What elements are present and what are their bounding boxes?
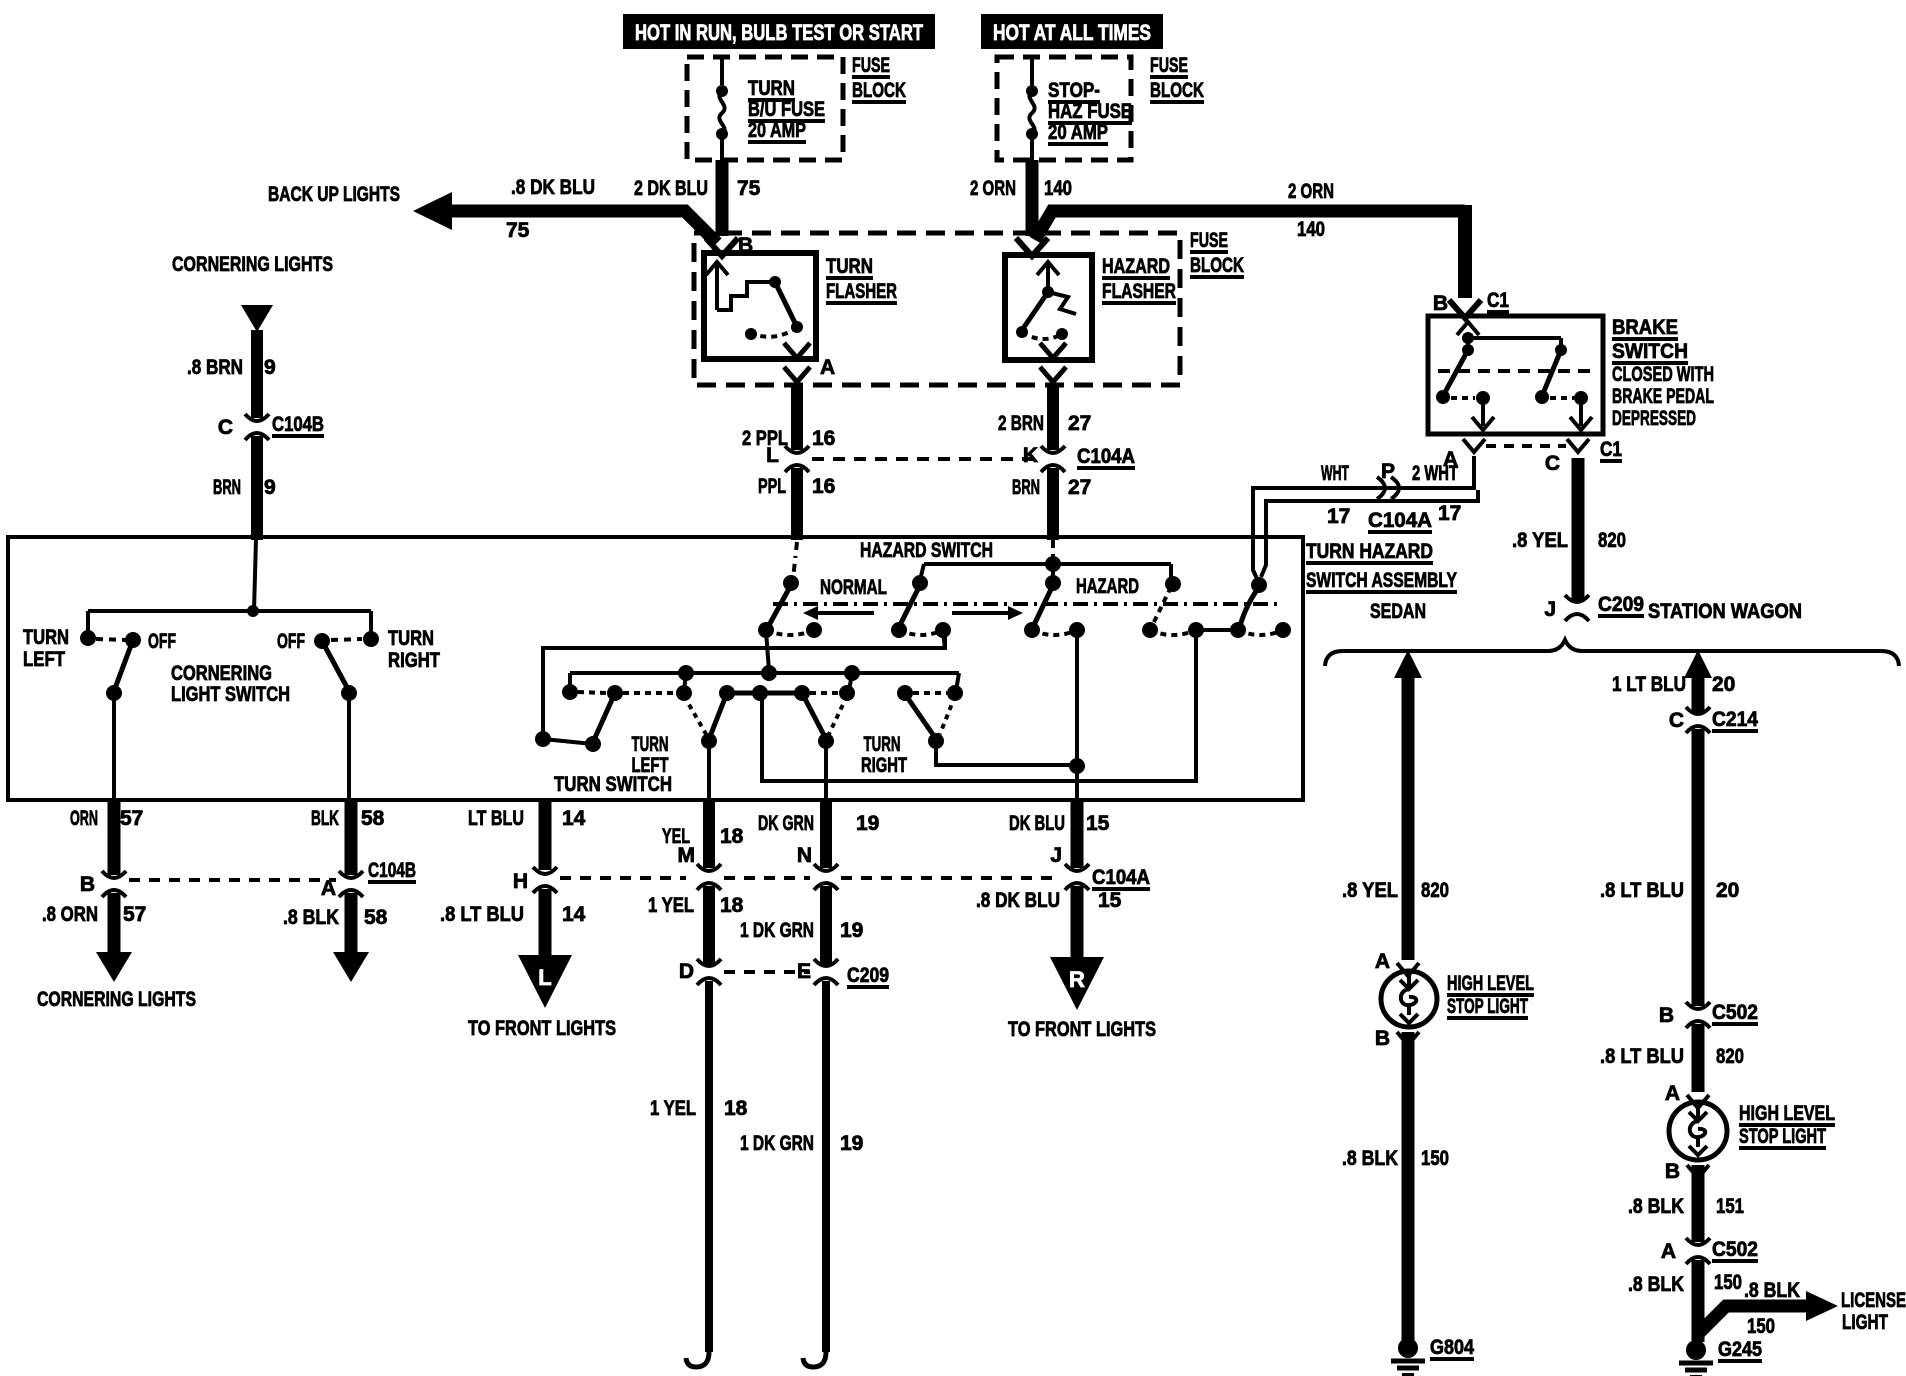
svg-text:.8 BLK: .8 BLK <box>283 906 339 929</box>
brace sedan/station wagon <box>1325 640 1899 666</box>
svg-text:BRAKE: BRAKE <box>1612 316 1678 339</box>
svg-text:G804: G804 <box>1430 1336 1474 1359</box>
svg-text:BLOCK: BLOCK <box>1150 79 1204 102</box>
turn blade 3 <box>802 693 847 749</box>
svg-text:N: N <box>797 844 812 867</box>
label CORNERING LIGHTS top <box>172 253 333 276</box>
wire 1 DK GRN 19 <box>740 886 863 964</box>
wire .8 BLK 150 sedan to ground <box>1342 1032 1449 1340</box>
terminal B wagon stop light <box>1665 1160 1709 1183</box>
svg-text:L: L <box>766 444 779 467</box>
wire YEL 18 <box>662 800 744 868</box>
label NORMAL <box>820 576 887 599</box>
label HAZARD FLASHER <box>1102 255 1176 303</box>
svg-text:20 AMP: 20 AMP <box>748 119 806 142</box>
svg-text:BLOCK: BLOCK <box>852 79 906 102</box>
wire .8 ORN 57 <box>42 893 146 954</box>
wire node DK BLU vertical <box>1069 632 1085 800</box>
wire .8 BLK 58 <box>283 893 388 954</box>
svg-text:.8 YEL: .8 YEL <box>1342 879 1398 902</box>
wire hazard4 right to lower run <box>762 632 1196 781</box>
connector C209 pin J <box>1544 593 1644 621</box>
svg-text:B: B <box>1665 1160 1680 1183</box>
terminal C brake switch <box>1545 438 1622 475</box>
arrow L to front lights <box>518 955 572 1008</box>
wire WHT 17 brake A to switch assembly <box>1253 456 1474 583</box>
wire 2 BRN 27 <box>998 385 1091 450</box>
turn switch feed line LT BLU <box>543 631 945 735</box>
label TURN FLASHER <box>826 255 897 303</box>
svg-text:RIGHT: RIGHT <box>861 754 907 777</box>
svg-text:151: 151 <box>1716 1195 1744 1218</box>
svg-text:820: 820 <box>1598 529 1626 552</box>
svg-text:P: P <box>1381 460 1395 483</box>
svg-text:FUSE: FUSE <box>1150 54 1188 77</box>
svg-text:.8 DK BLU: .8 DK BLU <box>976 889 1060 912</box>
svg-text:15: 15 <box>1086 812 1110 835</box>
svg-text:RIGHT: RIGHT <box>388 649 440 672</box>
arrow R to front lights <box>1050 957 1104 1010</box>
svg-text:TURN: TURN <box>632 733 669 756</box>
svg-text:G245: G245 <box>1718 1338 1762 1361</box>
svg-text:STOP LIGHT: STOP LIGHT <box>1739 1125 1826 1148</box>
svg-text:OFF: OFF <box>277 630 305 653</box>
svg-text:SWITCH ASSEMBLY: SWITCH ASSEMBLY <box>1306 569 1457 592</box>
svg-text:20: 20 <box>1716 879 1739 902</box>
label TURN SWITCH <box>554 773 672 796</box>
svg-text:.8 LT BLU: .8 LT BLU <box>1600 1045 1684 1068</box>
terminal A sedan stop light <box>1375 950 1419 976</box>
cornering switch left blade <box>106 640 133 701</box>
wire fuse2 out <box>1030 134 1034 161</box>
svg-text:58: 58 <box>364 906 388 929</box>
wire BLK 58 <box>311 800 385 875</box>
terminal hazard flasher out <box>1040 343 1066 382</box>
connector C104B pin B <box>80 871 336 897</box>
svg-text:C: C <box>218 416 233 439</box>
svg-text:C104A: C104A <box>1368 509 1432 532</box>
svg-text:C104A: C104A <box>1077 445 1135 468</box>
svg-text:TURN: TURN <box>826 255 873 278</box>
svg-text:.8 BRN: .8 BRN <box>187 356 243 379</box>
ground G245 <box>1679 1338 1762 1376</box>
svg-text:C209: C209 <box>1598 593 1644 616</box>
svg-text:C104A: C104A <box>1092 866 1150 889</box>
svg-text:58: 58 <box>361 807 385 830</box>
hazard blade 4 (dashed) <box>1153 587 1171 624</box>
terminal A brake switch <box>1443 439 1566 471</box>
terminal B brake switch <box>1433 289 1509 318</box>
hazard lower contacts 3 <box>1024 622 1085 638</box>
svg-text:C214: C214 <box>1712 708 1758 731</box>
svg-text:C502: C502 <box>1712 1001 1758 1024</box>
svg-text:A: A <box>820 356 835 379</box>
svg-text:DEPRESSED: DEPRESSED <box>1612 407 1696 430</box>
label TURN HAZARD SWITCH ASSEMBLY <box>1306 540 1457 592</box>
wire fuse2 feed <box>1030 57 1034 85</box>
terminal A turn flasher <box>784 343 835 382</box>
wire sedan feed arrow <box>1394 650 1422 960</box>
hazard lower contacts 1 <box>758 622 822 638</box>
arrow to cornering lights left <box>96 952 132 982</box>
svg-text:27: 27 <box>1068 412 1091 435</box>
fuse block 1 dashed box <box>687 57 843 160</box>
svg-text:C209: C209 <box>847 964 889 987</box>
svg-text:LIGHT SWITCH: LIGHT SWITCH <box>171 683 290 706</box>
svg-text:1 YEL: 1 YEL <box>648 894 694 917</box>
svg-text:.8 YEL: .8 YEL <box>1512 529 1568 552</box>
svg-text:HIGH LEVEL: HIGH LEVEL <box>1739 1102 1835 1125</box>
svg-text:14: 14 <box>562 807 586 830</box>
flasher fuse block dashed box <box>694 233 1180 385</box>
svg-text:16: 16 <box>812 427 835 450</box>
svg-text:20: 20 <box>1712 673 1735 696</box>
svg-text:HAZARD: HAZARD <box>1076 575 1139 598</box>
wire turn blade2 pole <box>707 741 711 800</box>
hazard blade 3 <box>1033 585 1053 627</box>
svg-text:B: B <box>80 873 95 896</box>
svg-text:C104B: C104B <box>368 859 416 882</box>
svg-text:BLK: BLK <box>311 807 339 830</box>
svg-text:17: 17 <box>1327 505 1350 528</box>
svg-text:TURN: TURN <box>23 626 69 649</box>
label TO FRONT LIGHTS left <box>468 1017 616 1040</box>
wire 2 WHT 17 brake A to switch assembly <box>1261 490 1478 577</box>
svg-text:1 YEL: 1 YEL <box>650 1097 696 1120</box>
svg-text:20 AMP: 20 AMP <box>1048 121 1108 144</box>
svg-text:.8 BLK: .8 BLK <box>1744 1279 1800 1302</box>
svg-text:BACK UP LIGHTS: BACK UP LIGHTS <box>268 183 400 206</box>
turn switch mid line <box>570 665 959 691</box>
svg-text:C: C <box>1545 452 1560 475</box>
svg-text:A: A <box>1375 950 1390 973</box>
wire turn blade3 to DK BLU <box>936 743 1073 765</box>
label .8 YEL 820 sedan <box>1342 879 1449 902</box>
connector C104A pin K <box>1023 444 1135 472</box>
svg-text:B: B <box>1659 1004 1674 1027</box>
svg-text:A: A <box>1665 1082 1680 1105</box>
hazard blade 1 <box>768 585 791 627</box>
svg-text:A: A <box>1661 1240 1676 1263</box>
svg-text:19: 19 <box>840 1132 863 1155</box>
connector C214 pin C <box>1669 707 1758 733</box>
fuse block 2 dashed box <box>997 57 1131 160</box>
svg-text:SWITCH: SWITCH <box>1612 340 1688 363</box>
svg-text:H: H <box>513 870 528 893</box>
svg-text:BRN: BRN <box>213 476 241 499</box>
lamp HIGH LEVEL STOP LIGHT sedan <box>1381 971 1534 1027</box>
connector C502 pin B <box>1659 1001 1758 1028</box>
hazard blade 5 <box>1240 587 1259 626</box>
wire cornering left pole <box>112 693 116 800</box>
turn flasher internals <box>706 262 803 340</box>
hazard lower contacts 5 <box>1196 622 1291 638</box>
hazard lower contacts 2 <box>891 622 951 638</box>
svg-text:HIGH LEVEL: HIGH LEVEL <box>1447 972 1534 995</box>
wire hazard2 right contact link <box>943 632 945 649</box>
wire cornering right pole <box>347 693 351 800</box>
label HAZARD <box>1076 575 1139 598</box>
svg-text:TO FRONT LIGHTS: TO FRONT LIGHTS <box>1008 1018 1156 1041</box>
hazard flasher internals <box>1016 262 1076 340</box>
svg-text:B/U FUSE: B/U FUSE <box>748 98 825 121</box>
svg-text:STATION WAGON: STATION WAGON <box>1648 600 1802 623</box>
turn blade 2 <box>684 693 727 749</box>
svg-text:B: B <box>1375 1027 1390 1050</box>
svg-text:820: 820 <box>1421 879 1449 902</box>
wire BRN into hazard switch <box>1051 540 1055 561</box>
cornering switch turn right contact <box>363 627 440 672</box>
svg-text:17: 17 <box>1438 502 1461 525</box>
svg-text:E: E <box>797 960 811 983</box>
ground G804 <box>1391 1336 1474 1375</box>
svg-text:150: 150 <box>1747 1315 1775 1338</box>
fuse TURN B/U FUSE 20 AMP <box>716 77 825 142</box>
svg-text:CORNERING LIGHTS: CORNERING LIGHTS <box>172 253 333 276</box>
label CORNERING LIGHTS bottom <box>37 988 196 1011</box>
connector C104A pin H <box>513 867 686 893</box>
svg-text:2 BRN: 2 BRN <box>998 412 1044 435</box>
svg-text:FUSE: FUSE <box>852 54 890 77</box>
svg-text:1 LT BLU: 1 LT BLU <box>1612 673 1686 696</box>
svg-text:NORMAL: NORMAL <box>820 576 887 599</box>
wire PPL into hazard switch <box>783 542 799 591</box>
svg-text:1 DK GRN: 1 DK GRN <box>740 1132 814 1155</box>
svg-text:OFF: OFF <box>148 630 176 653</box>
svg-text:J: J <box>1050 844 1062 867</box>
wire DK GRN 19 <box>758 800 879 868</box>
svg-text:HAZARD SWITCH: HAZARD SWITCH <box>860 539 993 562</box>
terminal A wagon stop light <box>1665 1082 1709 1108</box>
svg-text:140: 140 <box>1297 218 1325 241</box>
turn flasher box <box>704 253 816 359</box>
svg-text:L: L <box>538 965 551 990</box>
svg-text:BLOCK: BLOCK <box>1190 254 1244 277</box>
arrow to license light <box>1806 1289 1906 1334</box>
svg-text:9: 9 <box>264 476 276 499</box>
svg-text:TURN: TURN <box>748 77 795 100</box>
wire 1 YEL 18 down <box>650 981 748 1367</box>
svg-text:C1: C1 <box>1600 438 1622 461</box>
svg-text:TURN: TURN <box>388 627 434 650</box>
svg-text:B: B <box>1433 292 1448 315</box>
svg-text:A: A <box>321 877 336 900</box>
connector C104B pin A <box>321 859 416 900</box>
svg-text:19: 19 <box>856 812 879 835</box>
arrow normal direction <box>803 606 874 620</box>
svg-text:HAZ FUSE: HAZ FUSE <box>1048 100 1132 123</box>
hazard switch travel line <box>773 602 1282 606</box>
svg-text:LICENSE: LICENSE <box>1841 1289 1906 1312</box>
svg-text:PPL: PPL <box>758 475 786 498</box>
wire BRN 9 <box>213 436 276 540</box>
svg-text:BRAKE PEDAL: BRAKE PEDAL <box>1612 385 1714 408</box>
wire .8 LT BLU 14 <box>440 889 586 957</box>
terminal B sedan stop light <box>1375 1027 1419 1050</box>
svg-text:CORNERING LIGHTS: CORNERING LIGHTS <box>37 988 196 1011</box>
cornering switch right off contact <box>277 630 362 653</box>
svg-text:19: 19 <box>840 919 863 942</box>
wire .8 YEL 820 brake C down <box>1512 458 1626 600</box>
wire turn blade3 pole <box>824 741 828 800</box>
wire .8 LT BLU 820 <box>1600 1024 1744 1092</box>
svg-text:TURN: TURN <box>864 733 901 756</box>
label TURN RIGHT <box>861 733 907 777</box>
label 1 LT BLU 20 <box>1612 673 1735 696</box>
svg-text:BRN: BRN <box>1012 476 1040 499</box>
wire .8 BLK 150 wagon to ground <box>1628 1260 1742 1342</box>
svg-text:150: 150 <box>1714 1271 1742 1294</box>
svg-text:TURN HAZARD: TURN HAZARD <box>1306 540 1433 563</box>
svg-text:M: M <box>678 844 696 867</box>
svg-text:SEDAN: SEDAN <box>1370 600 1426 623</box>
wire cornering feed inside <box>88 539 371 636</box>
svg-text:C1: C1 <box>1487 289 1509 312</box>
wire fuse1 out <box>720 134 724 161</box>
power feed header HOT AT ALL TIMES <box>981 14 1163 49</box>
label FUSE BLOCK (left) <box>852 54 906 102</box>
svg-text:15: 15 <box>1098 889 1122 912</box>
wire DK BLU 15 <box>1009 800 1110 868</box>
turn blade 1 <box>535 693 615 752</box>
arrow to cornering lights right <box>333 952 369 982</box>
svg-text:C104B: C104B <box>272 413 324 436</box>
terminal B turn flasher <box>706 234 753 257</box>
wire LT BLU 14 <box>468 800 586 870</box>
svg-text:57: 57 <box>123 903 146 926</box>
svg-text:18: 18 <box>720 894 744 917</box>
label FUSE BLOCK (right) <box>1150 54 1204 102</box>
wire 2 DK BLU 75 fuse to flasher <box>634 160 761 236</box>
wire fuse1 feed <box>720 57 724 85</box>
brake switch internals <box>1436 322 1592 430</box>
svg-text:C: C <box>1669 709 1684 732</box>
wire 2 PPL 16 <box>742 385 835 450</box>
wire PPL 16 <box>758 468 835 540</box>
hazard switch upper contacts <box>912 575 1267 593</box>
connector C209 pin D <box>679 959 810 985</box>
svg-text:75: 75 <box>506 219 530 242</box>
wire .8 DK BLU 15 <box>976 886 1122 959</box>
label TO FRONT LIGHTS right <box>1008 1018 1156 1041</box>
svg-text:2 DK BLU: 2 DK BLU <box>634 177 708 200</box>
connector C104B pin C <box>218 413 324 440</box>
label STATION WAGON <box>1648 600 1802 623</box>
svg-text:WHT: WHT <box>1321 462 1349 485</box>
wire .8 BLK 151 <box>1628 1165 1744 1242</box>
svg-text:18: 18 <box>720 825 744 848</box>
svg-text:9: 9 <box>264 356 276 379</box>
svg-text:LT BLU: LT BLU <box>468 807 524 830</box>
svg-text:.8 BLK: .8 BLK <box>1628 1195 1684 1218</box>
wire 2 ORN 140 fuse to flasher <box>970 160 1072 236</box>
svg-text:HOT IN RUN, BULB TEST OR START: HOT IN RUN, BULB TEST OR START <box>635 20 923 45</box>
wire hazard1 to turn switch line <box>766 631 769 671</box>
svg-text:2 ORN: 2 ORN <box>1288 180 1334 203</box>
cornering switch turn left contact <box>23 626 96 671</box>
connector C209 pin E <box>797 959 889 987</box>
hazard flasher box <box>1005 255 1092 360</box>
label SEDAN <box>1370 600 1426 623</box>
svg-text:LIGHT: LIGHT <box>1842 1311 1888 1334</box>
svg-text:STOP-: STOP- <box>1048 79 1100 102</box>
turn blade 4 <box>905 694 955 749</box>
label BRAKE SWITCH text <box>1612 316 1714 430</box>
svg-text:HAZARD: HAZARD <box>1102 255 1170 278</box>
brake switch box <box>1428 316 1603 434</box>
lamp HIGH LEVEL STOP LIGHT wagon <box>1669 1102 1835 1160</box>
arrow from cornering lights <box>241 305 273 332</box>
svg-text:FLASHER: FLASHER <box>826 280 897 303</box>
wire .8 LT BLU 20 <box>1600 729 1739 1006</box>
label CORNERING LIGHT SWITCH <box>171 662 290 706</box>
svg-text:820: 820 <box>1716 1045 1744 1068</box>
turn hazard switch assembly box <box>8 537 1303 800</box>
svg-text:DK BLU: DK BLU <box>1009 812 1065 835</box>
svg-text:18: 18 <box>724 1097 748 1120</box>
svg-text:57: 57 <box>120 807 143 830</box>
svg-text:.8 LT BLU: .8 LT BLU <box>440 903 524 926</box>
label HAZARD SWITCH <box>860 539 993 562</box>
svg-text:FLASHER: FLASHER <box>1102 280 1176 303</box>
cornering switch left off contact <box>96 630 176 653</box>
svg-text:2 PPL: 2 PPL <box>742 427 788 450</box>
wire BRN 27 <box>1012 468 1091 540</box>
svg-text:CORNERING: CORNERING <box>171 662 272 685</box>
svg-text:14: 14 <box>562 903 586 926</box>
label FUSE BLOCK (flasher) <box>1190 229 1244 277</box>
svg-text:.8 DK BLU: .8 DK BLU <box>511 176 595 199</box>
svg-text:.8 BLK: .8 BLK <box>1342 1147 1398 1170</box>
svg-text:DK GRN: DK GRN <box>758 812 814 835</box>
wire wagon feed arrow <box>1684 650 1712 712</box>
svg-text:2 ORN: 2 ORN <box>970 177 1016 200</box>
wire 1 DK GRN 19 down <box>740 981 863 1367</box>
wire .8 BLK 150 to license light <box>1698 1279 1808 1338</box>
svg-text:K: K <box>1023 444 1038 467</box>
wire 1 YEL 18 <box>648 886 744 964</box>
hazard switch feed line <box>920 556 1171 581</box>
label TURN LEFT <box>632 733 669 777</box>
fuse STOP-HAZ FUSE 20 AMP <box>1026 79 1132 144</box>
svg-text:.8 ORN: .8 ORN <box>42 903 98 926</box>
svg-text:C502: C502 <box>1712 1238 1758 1261</box>
svg-text:.8 BLK: .8 BLK <box>1628 1273 1684 1296</box>
connector C502 pin A <box>1661 1238 1758 1264</box>
wire WHT verticals into box <box>1253 536 1266 570</box>
cornering switch right blade <box>322 641 357 701</box>
arrow hazard direction <box>952 606 1023 620</box>
svg-text:FUSE: FUSE <box>1190 229 1228 252</box>
connector C104A pin P <box>1321 460 1461 532</box>
svg-text:27: 27 <box>1068 476 1091 499</box>
wire .8 DK BLU 75 to back up lights <box>268 176 717 243</box>
svg-text:CLOSED WITH: CLOSED WITH <box>1612 363 1714 386</box>
wire ORN 57 <box>70 800 143 875</box>
svg-text:STOP LIGHT: STOP LIGHT <box>1447 995 1528 1018</box>
svg-text:D: D <box>679 960 694 983</box>
terminal B hazard flasher <box>1016 238 1048 256</box>
connector C104A pin J <box>1050 844 1150 890</box>
svg-text:LEFT: LEFT <box>23 648 65 671</box>
wire .8 BRN 9 <box>187 330 276 418</box>
svg-text:.8 LT BLU: .8 LT BLU <box>1600 879 1684 902</box>
svg-text:1 DK GRN: 1 DK GRN <box>740 919 814 942</box>
svg-text:TURN SWITCH: TURN SWITCH <box>554 773 672 796</box>
svg-text:TO FRONT LIGHTS: TO FRONT LIGHTS <box>468 1017 616 1040</box>
svg-text:140: 140 <box>1044 177 1072 200</box>
connector C104A pin L <box>766 444 1038 472</box>
